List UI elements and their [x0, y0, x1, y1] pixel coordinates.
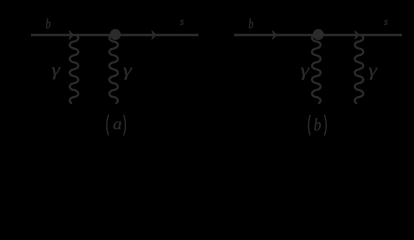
- label gamma 1 (b): [301, 68, 310, 80]
- vertex dot (a): [110, 29, 121, 40]
- fermion line b to s, diagram (a): [31, 34, 199, 37]
- label b (a): [46, 19, 50, 29]
- label s (a): [180, 20, 184, 25]
- arrow on s segment (b): [355, 31, 359, 39]
- photon wavy line 1 (a): [70, 36, 79, 104]
- label s (b): [384, 20, 388, 25]
- fermion line b to s, diagram (b): [234, 34, 402, 37]
- vertex dot (b): [313, 29, 324, 40]
- label gamma 2 (a): [124, 68, 133, 80]
- arrow on b segment (b): [273, 31, 277, 39]
- caption (a): letter a: [113, 122, 121, 130]
- caption (a): right paren: [124, 115, 126, 134]
- photon wavy line 2 (a): [109, 36, 118, 104]
- caption (b): right paren: [325, 115, 327, 134]
- photon wavy line 2 (b): [355, 36, 364, 104]
- photon wavy line 1 (b): [312, 36, 321, 104]
- label gamma 1 (a): [52, 67, 61, 79]
- caption (a): left paren: [107, 115, 109, 134]
- label b (b): [249, 19, 253, 29]
- arrow on b segment (a): [69, 31, 73, 39]
- caption (b): letter b: [314, 118, 321, 130]
- caption (b): left paren: [308, 115, 310, 134]
- arrow on s segment (a): [152, 31, 156, 39]
- label gamma 2 (b): [369, 68, 378, 80]
